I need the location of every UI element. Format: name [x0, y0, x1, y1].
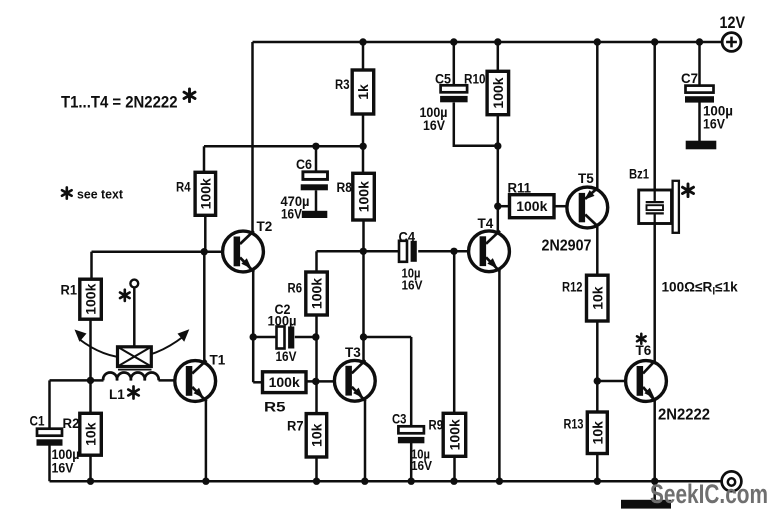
node T4 emitter ground junction	[496, 478, 503, 485]
node C5 top-rail junction	[450, 38, 457, 45]
svg-text:R9: R9	[429, 418, 444, 433]
svg-text:C1: C1	[30, 413, 45, 429]
wire T3 emitter drop	[364, 400, 367, 481]
capacitor C4	[399, 241, 417, 262]
node T6 base junction	[594, 377, 601, 384]
node R8-C4 junction	[360, 248, 367, 255]
capacitor C2	[277, 327, 295, 349]
svg-text:100k: 100k	[309, 278, 325, 309]
svg-text:T1: T1	[210, 353, 226, 368]
wire sub-rail corner down to R4	[203, 146, 206, 172]
svg-text:C7: C7	[681, 70, 698, 86]
wire branch to C1	[50, 379, 91, 382]
resistor R4	[176, 172, 216, 215]
node T5 top-rail junction	[594, 38, 601, 45]
resistor R8	[337, 173, 375, 220]
capacitor C3	[398, 426, 425, 443]
svg-text:T3: T3	[345, 345, 361, 360]
wire R4 bottom lead	[204, 215, 207, 252]
node C5-R10 junction	[494, 142, 501, 149]
wire C6 top lead	[315, 146, 318, 172]
node C6 sub-rail junction	[312, 143, 319, 150]
svg-text:2N2222: 2N2222	[658, 407, 710, 424]
capacitor C6	[301, 172, 328, 218]
wire C5 bottom jog	[454, 103, 498, 146]
node C2-R6 junction	[312, 333, 319, 340]
svg-text:100k: 100k	[269, 374, 300, 390]
transistor T2	[223, 219, 273, 272]
svg-text:100k: 100k	[356, 181, 372, 212]
svg-text:1k: 1k	[355, 84, 371, 100]
node T2 emitter-C2 junction	[250, 333, 257, 340]
wire C3 top lead	[410, 337, 413, 427]
asterisk at L1	[128, 387, 138, 399]
wire C4 to T4 base	[418, 250, 469, 253]
transistor T4	[469, 216, 510, 272]
wire middle sub-rail	[204, 145, 363, 148]
wire R6 top lead	[315, 251, 318, 272]
svg-text:R12: R12	[562, 280, 583, 295]
svg-text:R7: R7	[287, 419, 304, 434]
node T6 emitter ground junction	[651, 478, 658, 485]
node T4 base junction	[450, 248, 457, 255]
buzzer Bz1	[629, 167, 679, 233]
node T3 base junction	[312, 378, 319, 385]
node R3 top-rail junction	[359, 38, 366, 45]
node R10 top-rail junction	[494, 38, 501, 45]
wire R8 top lead	[362, 146, 365, 173]
antenna terminal	[130, 280, 138, 288]
wire R10 top lead	[497, 42, 500, 71]
wire 12V top rail	[253, 41, 722, 44]
svg-text:16V: 16V	[276, 349, 297, 364]
transistor T3	[334, 345, 375, 401]
wire T4 emitter drop	[498, 271, 501, 482]
capacitor C7	[685, 86, 714, 103]
svg-text:T6: T6	[636, 343, 652, 358]
node buzzer top-rail junction	[651, 38, 658, 45]
wire R3 bottom lead	[362, 114, 365, 146]
resistor R9	[429, 413, 466, 456]
asterisk at buzzer	[683, 184, 694, 197]
wire tuning arc with arrows	[75, 329, 190, 357]
transistor T6	[626, 343, 667, 401]
capacitor C5	[440, 85, 468, 102]
svg-text:R2: R2	[63, 416, 80, 431]
node R2 ground junction	[87, 478, 94, 485]
node T2 base junction	[201, 248, 208, 255]
node T3 collector-C3 junction	[360, 333, 367, 340]
node C3 ground junction	[408, 478, 415, 485]
node T1 emitter ground junction	[202, 478, 209, 485]
wire buzzer to T6 collector	[653, 223, 656, 361]
wire T2 emitter column	[252, 270, 255, 382]
wire R5 to T3 base	[306, 380, 335, 383]
svg-text:R5: R5	[264, 400, 286, 415]
wire R10 bottom column	[497, 115, 500, 232]
wire C2 left lead	[253, 336, 276, 339]
wire T1 emitter drop	[205, 401, 208, 482]
wire C2 right lead	[295, 336, 316, 339]
wire T2 collector column	[251, 42, 254, 234]
wire R8 bottom column	[362, 220, 365, 363]
wire R7 bottom lead	[315, 457, 318, 481]
wire R1-L1-R2 column	[89, 319, 92, 414]
svg-text:16V: 16V	[52, 461, 74, 476]
svg-text:C4: C4	[399, 229, 416, 245]
svg-text:C3: C3	[392, 411, 407, 427]
svg-text:16V: 16V	[703, 117, 725, 132]
wire R11 left lead	[498, 205, 510, 208]
svg-text:R4: R4	[176, 180, 191, 195]
wire C1 bottom lead	[48, 446, 51, 482]
wire R13 bottom lead	[596, 453, 599, 481]
wire ground stub	[653, 481, 656, 500]
node R3-R8 junction	[359, 143, 366, 150]
svg-text:R8: R8	[337, 180, 353, 195]
resistor R3	[335, 70, 374, 114]
output terminal	[722, 471, 742, 491]
resistor R13	[564, 412, 608, 454]
asterisk of see-text note	[62, 187, 72, 198]
node C7 top-rail junction	[696, 38, 703, 45]
wire C7 top lead	[698, 42, 701, 85]
asterisk at antenna	[120, 290, 130, 301]
svg-text:T1...T4 = 2N2222: T1...T4 = 2N2222	[61, 93, 178, 112]
node R9 ground junction	[450, 478, 457, 485]
wire T5 emitter column	[596, 42, 599, 189]
svg-text:L1: L1	[109, 387, 125, 402]
wire L1 left lead	[91, 379, 104, 382]
node R1-L1-C1 junction	[87, 377, 94, 384]
12V supply terminal	[720, 13, 746, 51]
svg-text:10k: 10k	[589, 421, 605, 445]
wire R9 bottom lead	[453, 456, 456, 481]
ground bar at C7	[686, 141, 717, 150]
svg-text:2N2907: 2N2907	[542, 238, 592, 255]
svg-text:100µ: 100µ	[268, 314, 297, 329]
svg-text:T5: T5	[578, 171, 594, 186]
wire T2 emitter to R5	[253, 381, 262, 384]
asterisk at T6	[637, 334, 646, 344]
svg-text:see text: see text	[77, 187, 124, 202]
wire R2 bottom lead	[89, 455, 92, 481]
resistor R2	[63, 413, 102, 455]
wire branch to C3	[364, 336, 412, 339]
svg-text:100k: 100k	[490, 77, 506, 108]
resistor R10	[464, 71, 509, 114]
svg-text:10k: 10k	[589, 286, 605, 310]
wire ground bottom rail	[50, 480, 722, 483]
svg-text:C5: C5	[435, 71, 451, 87]
node R13 ground junction	[594, 478, 601, 485]
node R11 tap	[494, 203, 501, 210]
wire C7 bottom lead	[698, 102, 701, 141]
wire R11 to T5 base	[554, 205, 567, 208]
inductor L1	[103, 372, 159, 380]
svg-text:16V: 16V	[411, 458, 432, 473]
wire antenna stub	[133, 287, 136, 347]
svg-text:R13: R13	[564, 417, 584, 432]
wire T1 collector column	[203, 252, 206, 364]
svg-text:R11: R11	[508, 181, 532, 196]
svg-text:16V: 16V	[423, 118, 445, 133]
resistor R6	[288, 272, 328, 315]
node T3 emitter ground junction	[361, 478, 368, 485]
wire T6 base lead	[597, 380, 625, 383]
svg-text:10k: 10k	[83, 422, 99, 446]
wire R6 bottom to R7	[315, 315, 318, 414]
svg-text:R1: R1	[61, 283, 78, 298]
wire L1 to T1 base	[159, 379, 175, 382]
resistor R11	[508, 181, 555, 218]
svg-text:100k: 100k	[516, 198, 547, 214]
wire C1 top lead	[48, 380, 51, 429]
svg-text:100k: 100k	[197, 178, 213, 209]
capacitor C1	[37, 429, 63, 446]
svg-text:C6: C6	[296, 156, 312, 172]
svg-text:16V: 16V	[281, 207, 302, 222]
svg-text:R3: R3	[335, 77, 350, 92]
svg-text:Bz1: Bz1	[629, 167, 649, 182]
wire T2 base run	[92, 250, 224, 253]
resistor R1	[61, 279, 102, 319]
svg-text:16V: 16V	[402, 278, 423, 293]
wire R12-R13 column	[596, 321, 599, 412]
wire T5 collector to R12	[596, 226, 599, 275]
wire C5 top lead	[453, 42, 456, 85]
asterisk after type note	[184, 89, 195, 102]
wire buzzer top column	[653, 42, 656, 190]
node R7 ground junction	[313, 478, 320, 485]
svg-text:100k: 100k	[447, 419, 463, 450]
wire T4 base to R9 column	[453, 251, 456, 413]
wire C3 bottom lead	[410, 443, 413, 481]
wire R1 top drop	[90, 252, 93, 280]
svg-text:T2: T2	[257, 219, 273, 234]
svg-text:R6: R6	[288, 281, 303, 296]
trimmer box with X	[118, 347, 152, 370]
svg-text:100k: 100k	[83, 283, 99, 314]
resistor R12	[562, 275, 608, 321]
transistor T1	[175, 353, 226, 402]
transistor T5	[567, 171, 608, 228]
wire feedback run to C4	[317, 250, 400, 253]
svg-text:T4: T4	[478, 216, 494, 231]
wire R3 top lead	[362, 42, 365, 70]
svg-text:10k: 10k	[309, 423, 325, 447]
resistor R7	[287, 414, 327, 457]
ground main symbol	[621, 500, 671, 509]
resistor R5	[263, 372, 307, 415]
svg-text:12V: 12V	[720, 13, 746, 32]
svg-text:SeekIC.com: SeekIC.com	[650, 479, 768, 509]
wire T6 emitter drop	[653, 401, 656, 481]
